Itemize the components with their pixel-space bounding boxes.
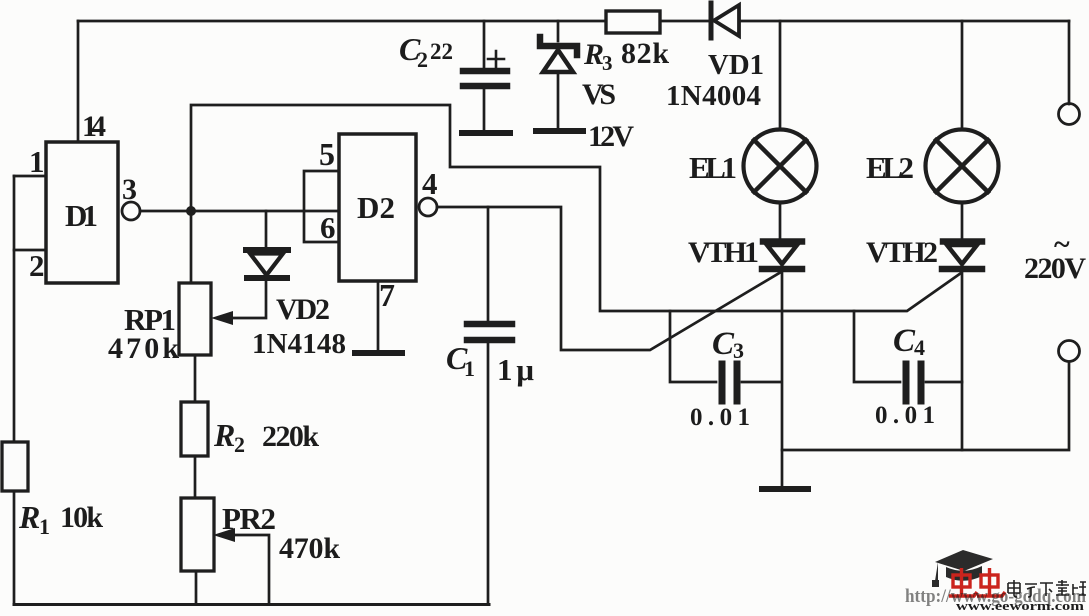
svg-text:VS: VS (582, 78, 616, 111)
svg-text:12V: 12V (588, 120, 634, 153)
svg-text:10k: 10k (60, 501, 103, 534)
wire pin1 stub (14, 175, 46, 178)
svg-text:14: 14 (82, 110, 106, 143)
svg-text:VD1: VD1 (708, 49, 764, 81)
node junction A (186, 206, 196, 216)
svg-text:3: 3 (602, 51, 613, 75)
svg-text:1N4148: 1N4148 (252, 328, 346, 360)
svg-text:C: C (712, 326, 735, 362)
potentiometer RP1 (179, 283, 211, 355)
svg-text:EL2: EL2 (866, 150, 914, 185)
svg-text:1N4004: 1N4004 (666, 80, 761, 112)
wire PR2 to bottom bus (195, 571, 198, 604)
svg-text:4: 4 (422, 166, 438, 201)
zener VS (540, 21, 577, 129)
thyristor VTH2 (942, 242, 982, 451)
svg-text:3: 3 (122, 173, 137, 206)
wire right terminal drop (1068, 21, 1071, 104)
wire left rail lower (13, 491, 16, 604)
svg-text:VTH2: VTH2 (866, 236, 938, 269)
svg-text:2: 2 (29, 248, 45, 283)
wire pin5-6 bracket (304, 171, 339, 242)
svg-text:1: 1 (39, 514, 50, 539)
wire node A to RP1 (190, 211, 193, 283)
svg-text:1μ: 1μ (497, 352, 534, 387)
IC D2 (339, 134, 416, 281)
svg-text:2: 2 (234, 432, 245, 457)
svg-text:VD2: VD2 (276, 293, 330, 326)
svg-text:R: R (583, 38, 604, 71)
svg-text:6: 6 (320, 210, 336, 245)
wire top bus right segment (739, 20, 1069, 23)
ground VS (536, 128, 583, 134)
pin 4 inverter bubble (419, 198, 437, 216)
terminal top-right (1059, 104, 1080, 125)
svg-text:82k: 82k (621, 37, 669, 70)
wire right bottom bus (782, 362, 1069, 450)
svg-text:7: 7 (379, 277, 395, 313)
svg-text:D2: D2 (357, 190, 395, 225)
wire PR2 wiper (232, 535, 269, 604)
svg-text:2: 2 (417, 47, 428, 72)
svg-text:470k: 470k (279, 532, 340, 565)
wire pin14 drop (77, 21, 80, 142)
wire riser from node A to VTH2 gate route (191, 105, 961, 311)
svg-text:C: C (893, 323, 916, 359)
watermark red chars (949, 568, 1005, 596)
capacitor C3 (670, 311, 780, 401)
terminal bottom-right (1059, 341, 1080, 362)
capacitor C4 (854, 311, 962, 401)
wire pin3 to D2 (140, 210, 339, 213)
IC D1 (46, 142, 118, 283)
svg-text:5: 5 (319, 136, 335, 172)
wire R2 to PR2 (194, 456, 197, 498)
wire EL2 feed (961, 21, 964, 130)
lamp EL1 (744, 130, 817, 203)
wire pin4 to VTH1 gate (437, 207, 781, 350)
wire pin7 (377, 281, 380, 351)
diode VD1 (711, 3, 739, 38)
wire left rail upper (13, 176, 16, 442)
svg-text:22: 22 (430, 39, 453, 64)
ground VTH1 cathode rail (762, 486, 808, 492)
C2 plus sign (488, 51, 504, 67)
svg-text:4: 4 (914, 335, 925, 360)
wire pin2 stub (14, 249, 46, 252)
RP1 wiper arrowhead from VD2 (211, 311, 233, 325)
lamp EL2 (926, 130, 999, 203)
svg-text:R: R (213, 417, 235, 453)
svg-text:D1: D1 (65, 198, 98, 233)
svg-text:www.eeworm.com: www.eeworm.com (956, 598, 1084, 611)
wire RP1 to R2 (194, 355, 197, 402)
svg-text:220V: 220V (1024, 252, 1086, 285)
capacitor C2 (463, 21, 507, 130)
svg-text:PR2: PR2 (222, 501, 276, 536)
pin 3 inverter bubble (122, 202, 140, 220)
diode VD2 (230, 211, 288, 318)
wire top bus middle segment (660, 20, 709, 23)
resistor R2 (181, 402, 208, 456)
svg-text:3: 3 (733, 338, 744, 363)
svg-text:R: R (18, 499, 40, 535)
svg-text:220k: 220k (262, 420, 319, 453)
wire top bus left segment (78, 20, 606, 23)
svg-text:VTH1: VTH1 (688, 236, 759, 269)
ground pin7 (355, 350, 402, 356)
resistor R1 (2, 442, 28, 491)
svg-text:0.01: 0.01 (690, 404, 750, 431)
svg-text:EL1: EL1 (689, 150, 737, 185)
wire EL1 feed (779, 21, 782, 130)
watermark graduation cap logo (932, 550, 993, 587)
PR2 wiper arrowhead (213, 528, 235, 542)
wire EL1 to VTH1 (779, 202, 782, 241)
resistor R3 (606, 11, 660, 33)
svg-text:0.01: 0.01 (875, 402, 935, 429)
potentiometer PR2 (181, 498, 214, 571)
svg-text:1: 1 (464, 356, 475, 381)
wire bottom bus (14, 603, 489, 606)
ground C2 (462, 130, 510, 136)
watermark black site name (1008, 580, 1086, 597)
svg-text:470k: 470k (108, 332, 179, 365)
thyristor VTH1 (762, 242, 802, 488)
capacitor C1 (467, 207, 512, 604)
svg-text:1: 1 (29, 144, 45, 179)
wire EL2 to VTH2 (961, 202, 964, 241)
